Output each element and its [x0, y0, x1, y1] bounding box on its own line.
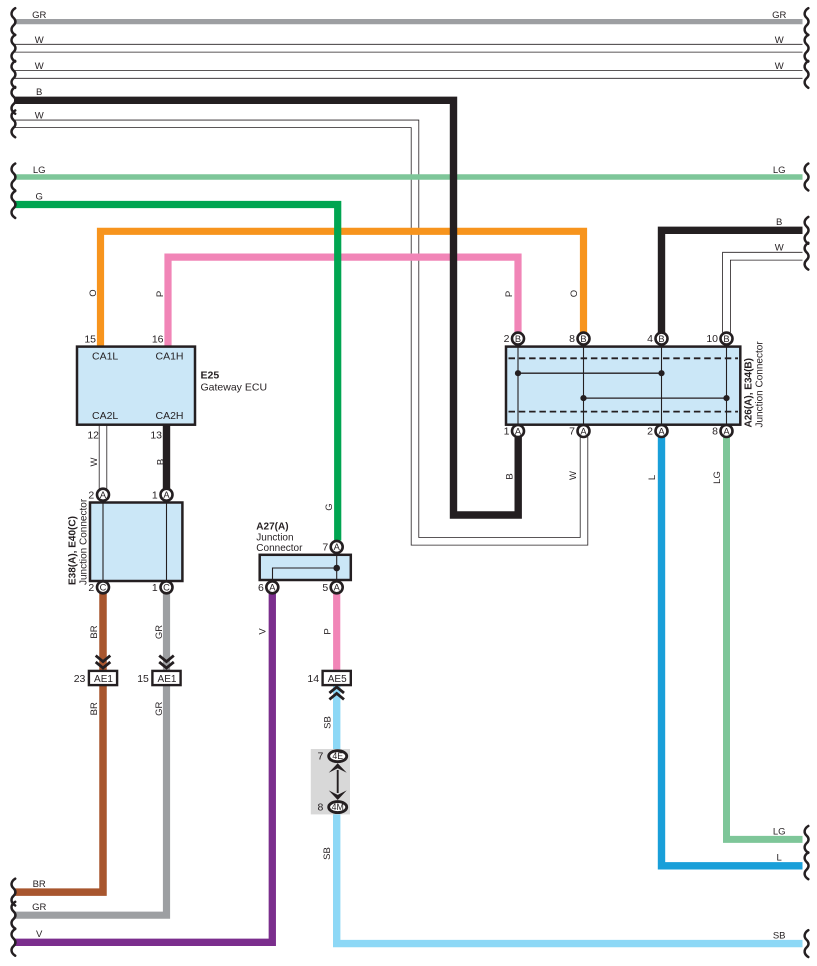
svg-text:AE1: AE1 [158, 674, 177, 685]
svg-text:W: W [775, 35, 784, 46]
svg-text:L: L [647, 475, 658, 480]
arrow chevrons above AE1 (23) [96, 656, 111, 668]
svg-text:4M: 4M [332, 802, 344, 812]
wire P (E25 pin 16 to pin 2B) [168, 257, 518, 347]
svg-text:W: W [35, 35, 44, 46]
svg-text:A: A [334, 542, 341, 552]
svg-text:7: 7 [318, 751, 324, 763]
wire B (row 4, loop to pin 1A) [14, 100, 518, 515]
svg-text:GR: GR [154, 625, 165, 639]
connector 4E [329, 751, 347, 762]
pin 8 B [578, 333, 590, 345]
pin 2 B [512, 333, 524, 345]
svg-text:4E: 4E [332, 751, 343, 761]
svg-text:A27(A): A27(A) [256, 522, 288, 533]
svg-text:A: A [269, 583, 276, 593]
svg-text:O: O [88, 289, 99, 296]
wire GR (E38 pin 1C to bottom left) [14, 594, 167, 916]
svg-text:14: 14 [307, 673, 319, 685]
wire BR (E38 pin 2C to bottom left) [14, 594, 103, 893]
svg-text:C: C [163, 583, 170, 593]
svg-text:BR: BR [33, 879, 46, 890]
wire LG (pin 8A to right edge) [727, 437, 803, 839]
svg-text:W: W [775, 61, 784, 72]
svg-text:W: W [35, 110, 44, 121]
break symbol right y=74.4 [805, 61, 809, 88]
svg-text:CA2H: CA2H [156, 410, 184, 422]
svg-text:SB: SB [323, 716, 334, 729]
svg-text:7: 7 [569, 426, 575, 438]
svg-text:LG: LG [712, 471, 723, 484]
svg-text:GR: GR [772, 10, 786, 21]
wire W (row 5, to junction connector pin 7A) [14, 124, 584, 541]
svg-text:A: A [163, 490, 170, 500]
break symbol left y=21.6 [12, 8, 16, 35]
svg-text:8: 8 [318, 802, 324, 814]
svg-text:A: A [723, 426, 730, 436]
svg-text:1: 1 [152, 489, 158, 501]
svg-text:2: 2 [504, 333, 510, 345]
connector 4M [329, 802, 347, 813]
svg-text:SB: SB [322, 847, 333, 860]
svg-text:B: B [505, 473, 516, 479]
break symbol left y=74.4 [12, 61, 16, 88]
internal pin line [517, 347, 519, 425]
break symbol right y=943.6 [805, 930, 809, 957]
break symbol left y=48.2 [12, 35, 16, 62]
svg-text:A: A [100, 490, 107, 500]
svg-text:Junction Connector: Junction Connector [79, 498, 90, 585]
arrow chevrons below AE5 [329, 687, 344, 699]
svg-text:BR: BR [89, 625, 100, 638]
svg-text:AE5: AE5 [328, 674, 347, 685]
connector A26(A) E34(B) box [506, 347, 740, 425]
svg-text:B: B [723, 334, 729, 344]
wire L (pin 2A to right edge) [662, 437, 803, 866]
svg-text:A: A [334, 583, 341, 593]
svg-text:AE1: AE1 [94, 674, 113, 685]
break symbol left y=177 [12, 164, 16, 191]
svg-text:CA1H: CA1H [156, 350, 184, 362]
pin 2 A (E38) [97, 489, 109, 501]
svg-text:B: B [515, 334, 521, 344]
break symbol left y=942.3 [12, 929, 16, 956]
connector AE1 (23) [89, 671, 117, 685]
svg-text:15: 15 [84, 334, 96, 346]
svg-text:W: W [775, 242, 784, 253]
svg-text:A: A [658, 426, 665, 436]
svg-text:CA1L: CA1L [92, 350, 118, 362]
svg-text:C: C [100, 583, 107, 593]
svg-text:8: 8 [712, 426, 718, 438]
connector E38(A) E40(C) box [90, 503, 182, 582]
svg-text:BR: BR [89, 702, 100, 715]
svg-text:E38(A), E40(C): E38(A), E40(C) [68, 516, 79, 585]
dashed line lower [509, 411, 739, 413]
svg-text:P: P [323, 628, 334, 634]
internal bus upper [518, 372, 662, 374]
pin 7 A [578, 425, 590, 437]
svg-text:CA2L: CA2L [92, 410, 118, 422]
pin 1 C (E38) [161, 581, 173, 593]
svg-text:B: B [658, 334, 664, 344]
svg-text:7: 7 [322, 542, 328, 554]
wire V (A27 pin 6A to bottom left) [14, 594, 272, 943]
op E25 Gateway ECU box [77, 347, 195, 425]
wire W (CA2L to E38 pin 2A) [99, 425, 107, 490]
svg-text:B: B [156, 459, 167, 465]
pin 6 A (A27) [266, 581, 278, 593]
svg-text:4: 4 [647, 333, 653, 345]
svg-text:2: 2 [88, 582, 94, 594]
shield 4E-4M gray panel [311, 749, 350, 814]
svg-text:O: O [569, 290, 580, 297]
break symbol left y=892.1 [12, 879, 16, 906]
svg-text:G: G [324, 503, 335, 510]
pin 4 B [656, 333, 668, 345]
svg-text:B: B [580, 334, 586, 344]
wire B (CA2H to E38 pin 1A) [163, 425, 170, 490]
wire SB (AE5 to bottom right) [337, 686, 803, 944]
svg-text:V: V [36, 929, 43, 940]
break symbol right y=177 [805, 164, 809, 191]
wire LG (full width) [14, 174, 803, 180]
svg-text:GR: GR [32, 902, 46, 913]
wire W (right, to pin 10B) [727, 256, 803, 332]
pin 2 C (E38) [97, 581, 109, 593]
wire W (row 2, full width) [14, 44, 803, 53]
pin 10 B [721, 333, 733, 345]
break symbol right y=256.2 [805, 243, 809, 270]
svg-text:L: L [777, 853, 782, 864]
svg-text:5: 5 [322, 582, 328, 594]
pin 8 A [721, 425, 733, 437]
dashed line upper [509, 357, 739, 359]
wire O (E25 pin 15 to pin 8B) [101, 231, 584, 347]
svg-text:LG: LG [773, 826, 786, 837]
pin 2 A [656, 425, 668, 437]
arrow chevrons above AE1 (15) [159, 656, 174, 668]
svg-text:2: 2 [88, 489, 94, 501]
pin 1 A (E38) [161, 489, 173, 501]
svg-text:W: W [568, 471, 579, 480]
svg-text:1: 1 [504, 426, 510, 438]
svg-text:1: 1 [152, 582, 158, 594]
svg-text:A: A [515, 426, 522, 436]
svg-text:A26(A), E34(B): A26(A), E34(B) [744, 358, 755, 427]
svg-text:10: 10 [706, 333, 718, 345]
internal pin line [726, 347, 728, 425]
svg-text:LG: LG [773, 165, 786, 176]
svg-text:GR: GR [154, 702, 165, 716]
break symbol left y=123.85 [12, 110, 16, 137]
svg-text:E25: E25 [201, 370, 220, 382]
svg-text:G: G [36, 192, 43, 203]
svg-text:6: 6 [258, 582, 264, 594]
break symbol right y=230.3 [805, 217, 809, 244]
break symbol right y=839.4 [805, 826, 809, 853]
connector AE5 (14) [323, 671, 351, 685]
break symbol right y=21.6 [805, 8, 809, 35]
svg-text:Connector: Connector [256, 543, 303, 554]
svg-text:W: W [35, 61, 44, 72]
connector A27(A) box [260, 555, 351, 580]
break symbol left y=204.5 [12, 191, 16, 218]
svg-text:SB: SB [773, 930, 786, 941]
svg-text:15: 15 [137, 673, 149, 685]
wire W (row 3, full width) [14, 70, 803, 79]
svg-text:13: 13 [150, 430, 162, 442]
wire P (A27 pin 5A to AE5) [333, 594, 340, 673]
wire G (to A27 pin 7A) [14, 205, 338, 541]
svg-text:V: V [258, 628, 269, 635]
break symbol right y=48.2 [805, 35, 809, 62]
svg-text:8: 8 [569, 333, 575, 345]
wire B (right, to pin 4B) [662, 230, 803, 332]
internal pin line [661, 347, 663, 425]
svg-text:LG: LG [33, 165, 46, 176]
svg-text:P: P [155, 291, 166, 297]
svg-text:A: A [580, 426, 587, 436]
svg-text:W: W [89, 457, 100, 466]
svg-text:2: 2 [647, 426, 653, 438]
connector AE1 (15) [152, 671, 180, 685]
pin 1 A [512, 425, 524, 437]
arrow double between 4E and 4M [337, 770, 339, 793]
svg-text:P: P [504, 291, 515, 297]
svg-text:Junction Connector: Junction Connector [755, 341, 766, 428]
svg-text:Junction: Junction [256, 533, 293, 544]
pin 7 A (A27) [331, 541, 343, 553]
svg-text:23: 23 [74, 673, 86, 685]
svg-text:Gateway ECU: Gateway ECU [201, 382, 268, 394]
svg-text:B: B [36, 87, 42, 98]
internal bus lower [584, 397, 727, 399]
break symbol left y=100.35 [12, 87, 16, 114]
pin 5 A (A27) [331, 581, 343, 593]
break symbol right y=865.8 [805, 852, 809, 879]
svg-text:GR: GR [32, 10, 46, 21]
break symbol left y=915.2 [12, 902, 16, 929]
svg-text:16: 16 [152, 334, 164, 346]
internal pin line [583, 347, 585, 425]
wire GR (top, full width) [14, 19, 803, 24]
svg-text:12: 12 [87, 430, 99, 442]
svg-text:B: B [776, 217, 782, 228]
